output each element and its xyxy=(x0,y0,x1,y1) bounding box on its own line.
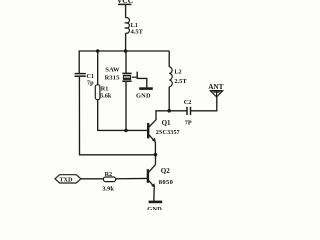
antenna ANT xyxy=(208,83,223,97)
wire VCC to L1 xyxy=(125,4,127,17)
inductor L2 xyxy=(169,51,187,111)
ground GND at Q2 emitter xyxy=(147,202,162,213)
wire R2 to Q2 base xyxy=(116,177,147,179)
resistor R1 xyxy=(95,51,112,130)
svg-text:4.5T: 4.5T xyxy=(131,28,144,35)
svg-text:SAW: SAW xyxy=(105,66,120,73)
wire L1 to top rail xyxy=(125,33,127,51)
svg-text:C2: C2 xyxy=(184,99,192,106)
wire C2 to antenna xyxy=(191,97,217,111)
node RF junction xyxy=(167,109,171,113)
wire Q2 emitter down xyxy=(153,188,155,201)
inductor L1 xyxy=(126,18,144,36)
node emitter junction xyxy=(154,153,158,157)
node rail/R1 junction xyxy=(96,49,100,53)
TXD input tag xyxy=(55,175,81,184)
transistor Q2 8050 xyxy=(148,165,174,189)
svg-text:TXD: TXD xyxy=(59,176,73,183)
transistor Q1 2SC3357 xyxy=(148,119,180,143)
wire left branch lower xyxy=(79,76,155,154)
svg-text:3.9k: 3.9k xyxy=(102,185,114,192)
svg-text:2.5T: 2.5T xyxy=(174,78,187,85)
svg-text:L2: L2 xyxy=(174,68,181,75)
capacitor C2 xyxy=(184,99,192,127)
wire Q1 base rail xyxy=(97,129,147,131)
ground GND at SAW case xyxy=(132,72,153,100)
wire TXD to R2 xyxy=(81,178,104,180)
svg-text:GND: GND xyxy=(147,206,162,210)
wire top rail xyxy=(79,50,169,52)
svg-text:7P: 7P xyxy=(185,120,192,127)
VCC power terminal xyxy=(117,0,133,5)
svg-text:ANT: ANT xyxy=(208,83,223,91)
svg-text:7p: 7p xyxy=(87,80,94,87)
svg-text:Q2: Q2 xyxy=(161,167,170,175)
svg-text:GND: GND xyxy=(136,92,151,99)
svg-text:8050: 8050 xyxy=(159,179,174,186)
wire left branch upper xyxy=(78,50,80,73)
wire Q1 collector to RF node xyxy=(156,111,187,120)
resistor R2 xyxy=(102,171,116,193)
SAW resonator R315 xyxy=(105,51,132,130)
node SAW/base junction xyxy=(124,129,128,133)
wire Q1 emitter to Q2 collector xyxy=(154,142,156,155)
capacitor C1 xyxy=(75,73,94,87)
node rail/L1 junction xyxy=(124,49,128,53)
svg-text:2SC3357: 2SC3357 xyxy=(156,130,180,136)
svg-text:R315: R315 xyxy=(105,74,120,81)
svg-text:R1: R1 xyxy=(101,86,109,93)
svg-text:5.6k: 5.6k xyxy=(100,93,112,100)
svg-text:Q1: Q1 xyxy=(162,119,171,127)
